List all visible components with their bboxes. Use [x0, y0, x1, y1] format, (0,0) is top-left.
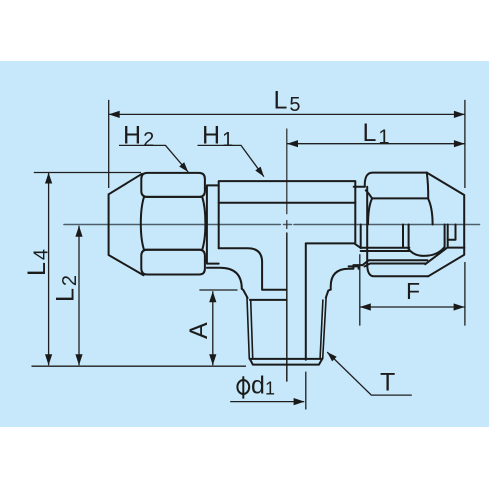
- svg-text:F: F: [406, 278, 420, 304]
- F dimension: [360, 254, 465, 325]
- A dimension: [199, 290, 237, 365]
- thread bottom: [250, 359, 323, 365]
- T leader: [327, 352, 412, 395]
- svg-text:T: T: [380, 369, 395, 397]
- rear ledge 2: [448, 247, 465, 249]
- bore top line: [219, 202, 356, 204]
- right cone: [427, 173, 464, 277]
- right nut facet junction: [366, 190, 372, 198]
- ferrule verticals: [403, 225, 409, 250]
- ferrule arc: [409, 248, 444, 256]
- rear ledge 1: [448, 225, 456, 240]
- rear verticals: [445, 225, 448, 248]
- L4 arrows: [45, 173, 52, 184]
- tube outer line: [361, 247, 410, 249]
- left nut cone: [109, 174, 144, 275]
- left nut bottom band: [141, 250, 205, 275]
- bore bottom contour left: [219, 248, 287, 289]
- bore right wall (section): [305, 243, 307, 359]
- label phi d1: [237, 376, 249, 398]
- thread taper right: [320, 298, 326, 359]
- right nut middle band right edge: [427, 173, 433, 225]
- centerline vertical / branch axis: [286, 129, 288, 229]
- stub line left of nut: [349, 266, 359, 268]
- arrowheads: [45, 111, 465, 405]
- L1 arrows: [287, 140, 298, 147]
- thread chamfer left: [242, 289, 248, 298]
- thread taper left: [247, 298, 253, 359]
- A arrows: [209, 291, 216, 302]
- tube second line: [361, 250, 410, 252]
- H2 arrow: [179, 162, 188, 172]
- centerline horizontal: [64, 224, 480, 226]
- phi d1 dimension: [230, 372, 306, 410]
- svg-text:d: d: [251, 372, 265, 400]
- right collar: [354, 187, 368, 225]
- left collar: [205, 185, 219, 263]
- svg-text:A: A: [185, 322, 213, 339]
- svg-text:1: 1: [265, 379, 275, 399]
- L2 arrows: [75, 226, 82, 237]
- left nut top band: [141, 173, 205, 197]
- bore ledge right + seat chamfer: [306, 243, 361, 248]
- L5 dimension line: [109, 113, 465, 115]
- right nut middle band left edge: [368, 198, 372, 224]
- left nut middle band: [141, 197, 206, 250]
- H2 leader: [119, 145, 188, 172]
- body bottom left + fillet to branch: [207, 268, 242, 289]
- L5 arrows: [109, 111, 120, 118]
- T arrow: [327, 352, 337, 361]
- H1 arrow: [255, 167, 264, 177]
- fillet body to branch right: [331, 265, 363, 290]
- L4 dimension: [32, 173, 247, 367]
- L2 dimension: [78, 226, 80, 365]
- F arrows: [360, 303, 371, 310]
- inner diagonal: [425, 248, 447, 264]
- branch right outer wall + step: [326, 290, 331, 298]
- body: [219, 181, 356, 248]
- L5 extension lines: [109, 100, 465, 188]
- tube end face: [360, 225, 362, 248]
- H1 leader: [198, 145, 264, 176]
- inner thread line left: [250, 299, 287, 301]
- phi d1 arrow: [294, 398, 305, 405]
- right nut bottom (section outline): [367, 225, 428, 277]
- section internals: double bore lines: [363, 260, 428, 266]
- right nut top band: [365, 173, 428, 199]
- L1 dimension line: [287, 143, 465, 145]
- blue panel: [0, 61, 489, 427]
